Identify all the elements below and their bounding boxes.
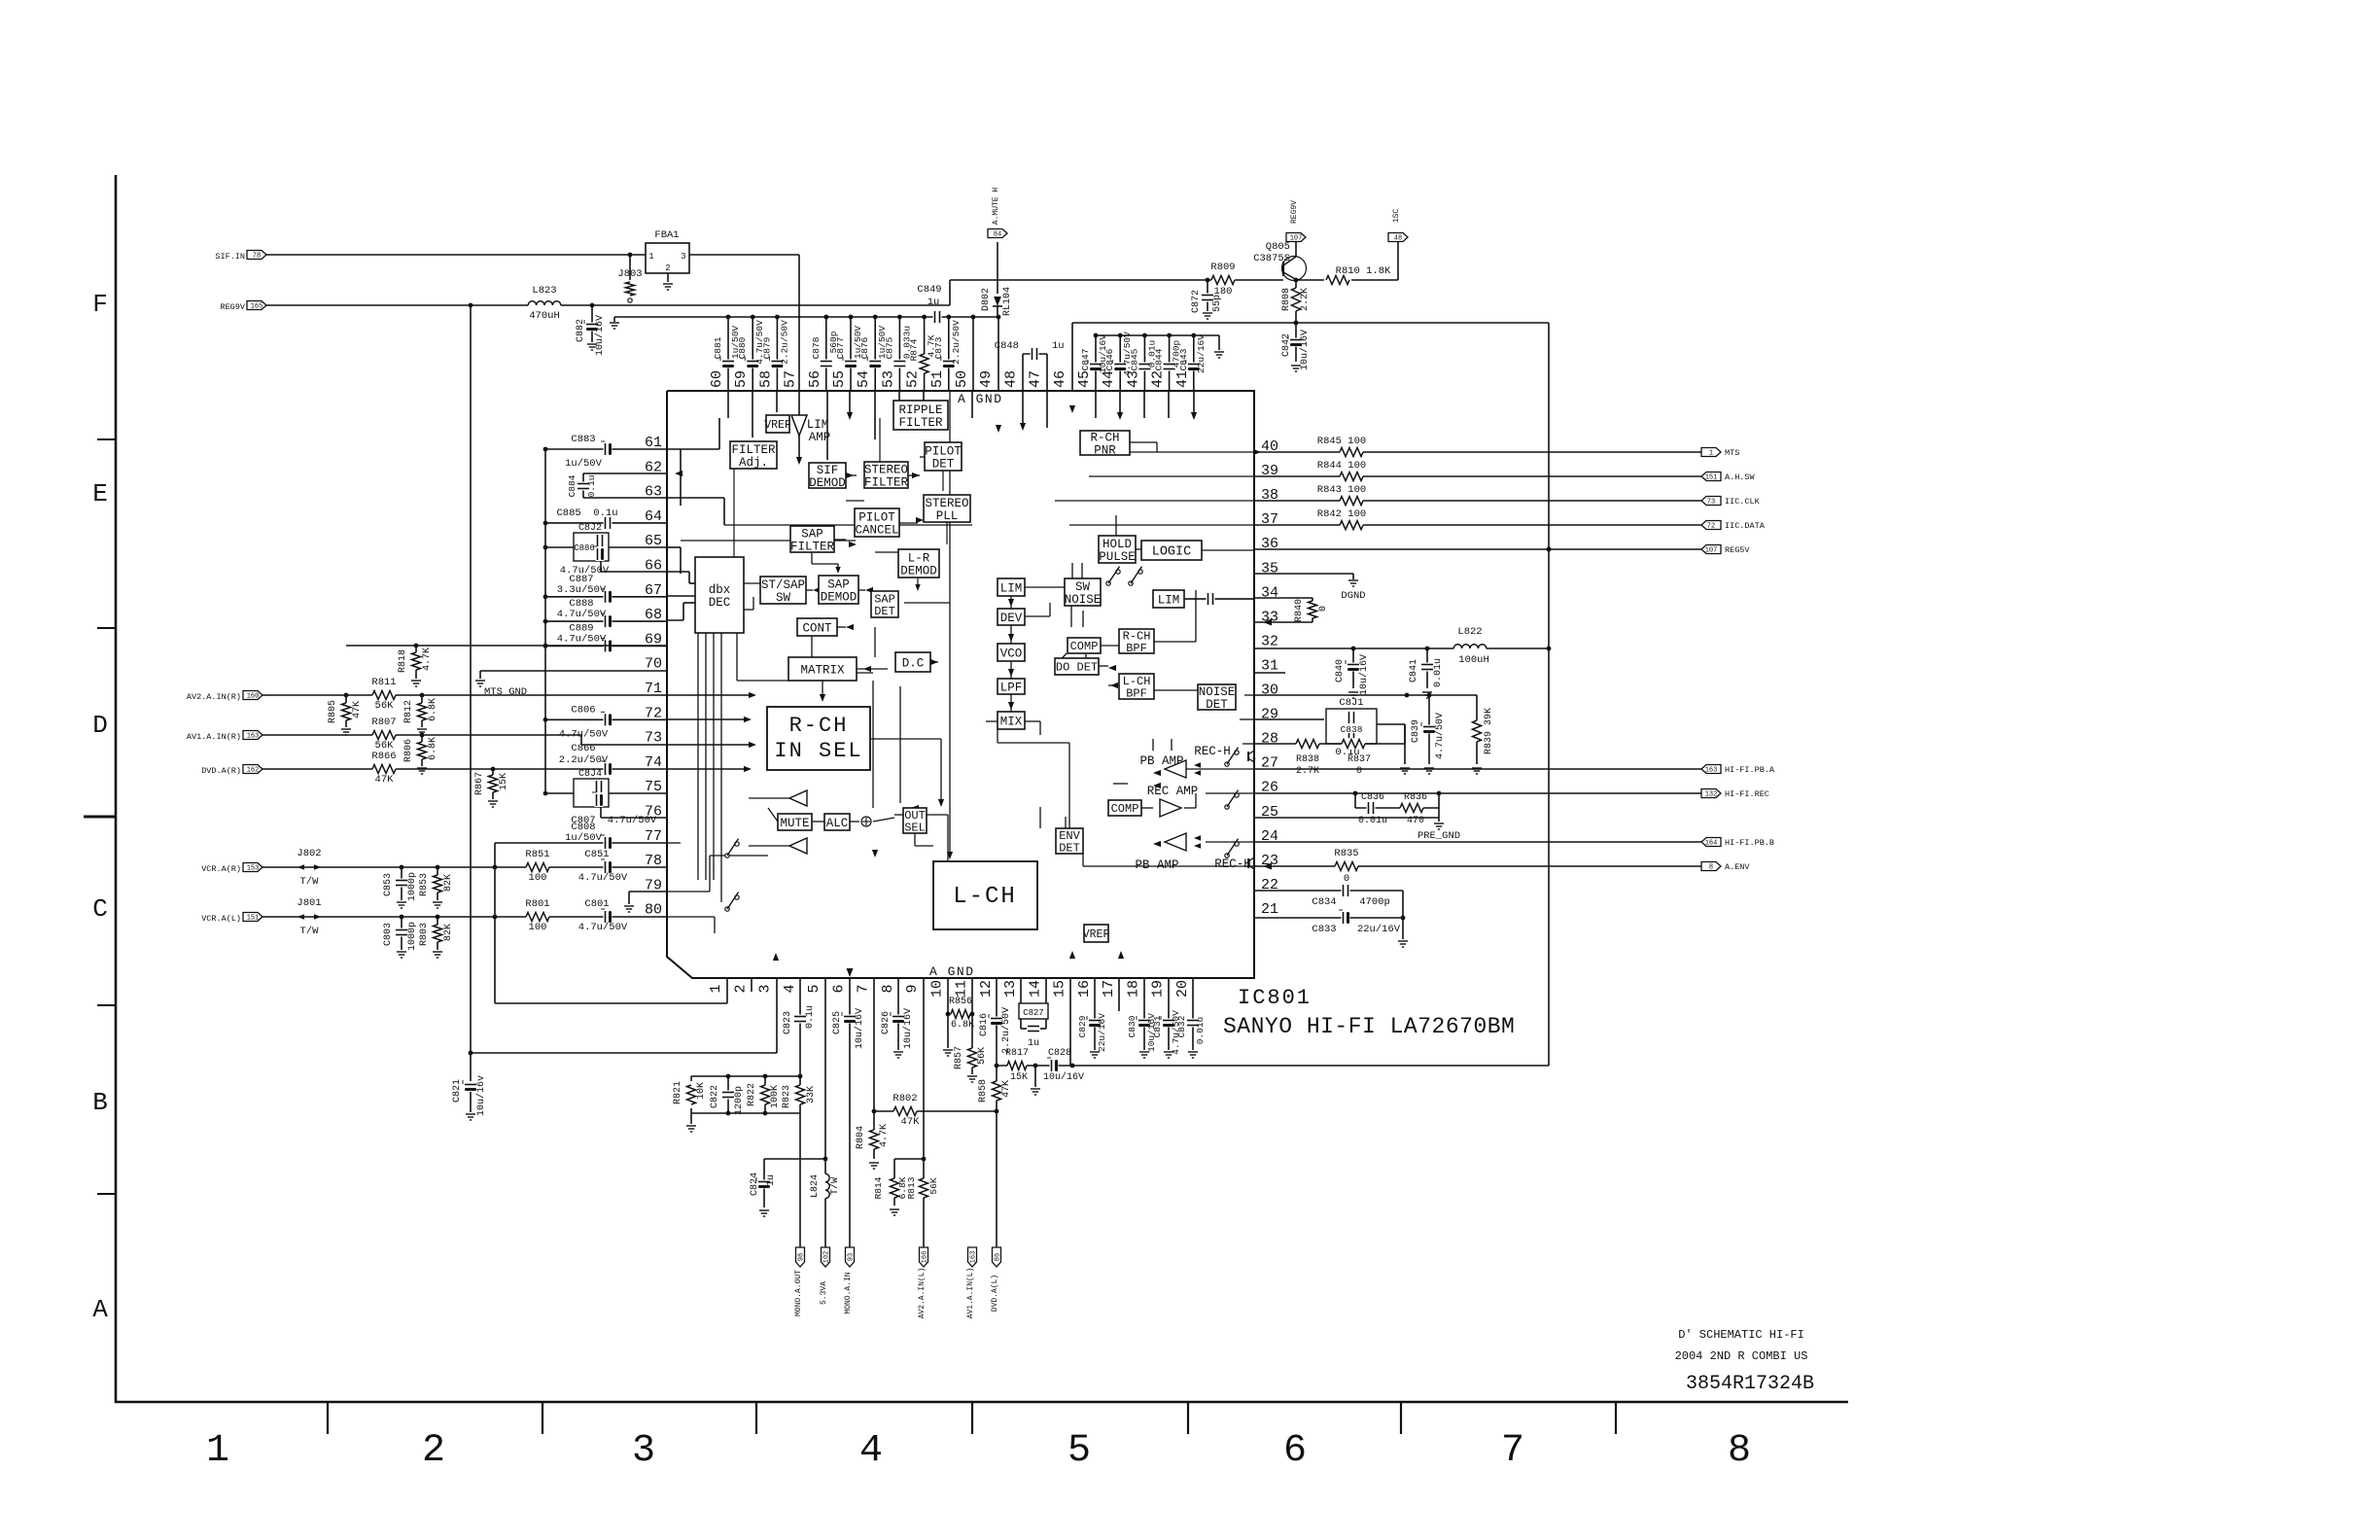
capacitor C826 bbox=[881, 978, 914, 1058]
pin 33 bbox=[1261, 609, 1278, 625]
capacitor C836 loop bbox=[1353, 791, 1442, 826]
wire bbox=[1010, 625, 1012, 644]
svg-text:42: 42 bbox=[1150, 370, 1167, 388]
svg-text:MONO.A.IN: MONO.A.IN bbox=[844, 1272, 853, 1313]
svg-text:SANYO HI-FI LA72670BM: SANYO HI-FI LA72670BM bbox=[1223, 1014, 1515, 1039]
svg-text:BPF: BPF bbox=[1126, 686, 1147, 700]
wire arrow bbox=[1110, 682, 1118, 688]
connector A.ENV bbox=[1701, 862, 1750, 873]
wire pin feed bbox=[752, 391, 753, 437]
pin 39 bbox=[1261, 463, 1278, 479]
wire bbox=[1101, 645, 1119, 647]
wire AGND bus A bbox=[614, 315, 1000, 320]
wire bbox=[930, 661, 938, 663]
wire pin 27 to HI-FI.PB.A bbox=[1254, 768, 1701, 770]
wire pin 36 to REG5V bbox=[1254, 548, 1701, 550]
svg-text:E: E bbox=[92, 479, 108, 508]
svg-text:1200p: 1200p bbox=[734, 1086, 745, 1115]
svg-text:C801: C801 bbox=[584, 898, 609, 910]
connector HI-FI.PB.B bbox=[1701, 838, 1774, 849]
pin 14 bbox=[1027, 980, 1043, 997]
wire SIF feed down to pin 57 bbox=[798, 255, 800, 415]
ground pin28 net bbox=[1400, 724, 1410, 774]
pin 36 bbox=[1261, 536, 1278, 552]
wire pin11 drop bbox=[970, 978, 975, 1074]
pin 17 bbox=[1101, 980, 1117, 997]
inductor L822 bbox=[1453, 626, 1489, 666]
wire VCR R row to pin78 bbox=[262, 865, 667, 870]
svg-text:A.MUTE H: A.MUTE H bbox=[992, 188, 1000, 226]
svg-text:32: 32 bbox=[1261, 633, 1278, 649]
pin 43 bbox=[1125, 370, 1141, 388]
wire arrow bbox=[847, 412, 853, 420]
svg-text:FBA1: FBA1 bbox=[654, 229, 679, 241]
svg-text:AV1.A.IN(R): AV1.A.IN(R) bbox=[187, 732, 241, 742]
svg-text:C853: C853 bbox=[383, 873, 394, 896]
connector HI-FI.PB.A bbox=[1701, 765, 1775, 776]
svg-text:4.7u/50V: 4.7u/50V bbox=[557, 633, 607, 645]
transistor REC-H lower bbox=[1214, 857, 1255, 871]
svg-text:R807: R807 bbox=[371, 717, 396, 728]
wire LIM AMP out bbox=[796, 436, 802, 465]
switch sw4 bbox=[1225, 790, 1239, 810]
block NOISE DET bbox=[1198, 684, 1236, 712]
capacitor C828 bbox=[1043, 1048, 1084, 1083]
wire bottom rail to right bus bbox=[997, 1064, 1549, 1068]
svg-text:REC AMP: REC AMP bbox=[1147, 785, 1199, 798]
svg-text:3: 3 bbox=[757, 984, 774, 993]
svg-text:100: 100 bbox=[529, 922, 547, 933]
pin 15 bbox=[1052, 980, 1068, 997]
wire bbox=[1202, 549, 1254, 551]
pin 4 bbox=[782, 984, 798, 993]
block SAP FILTER bbox=[790, 526, 835, 553]
pin 29 bbox=[1261, 707, 1278, 723]
pin 55 bbox=[831, 370, 848, 388]
connector A.MUTE H bbox=[988, 188, 1007, 239]
ground cap-stack bus bbox=[1214, 352, 1224, 358]
svg-text:R813: R813 bbox=[906, 1176, 917, 1199]
wire bbox=[997, 742, 1069, 744]
svg-text:C881: C881 bbox=[713, 336, 723, 359]
svg-text:48: 48 bbox=[1002, 370, 1019, 388]
pin 45 bbox=[1076, 370, 1093, 388]
pin 56 bbox=[807, 370, 823, 388]
pin 27 bbox=[1261, 755, 1278, 772]
op-amp U1 IC801 outline bbox=[667, 391, 1254, 978]
resistor R858 bbox=[978, 1079, 1012, 1102]
row label E bbox=[92, 479, 108, 508]
svg-text:0.01u: 0.01u bbox=[1433, 658, 1444, 687]
svg-text:30: 30 bbox=[1261, 682, 1278, 699]
svg-text:D' SCHEMATIC HI-FI: D' SCHEMATIC HI-FI bbox=[1678, 1328, 1804, 1342]
svg-text:R874: R874 bbox=[909, 338, 920, 361]
wire bbox=[1071, 563, 1073, 578]
block MATRIX bbox=[788, 657, 857, 681]
pin 18 bbox=[1125, 980, 1141, 997]
svg-text:DVD.A(L): DVD.A(L) bbox=[991, 1275, 999, 1312]
wire Q805 emitter to R810 bbox=[1297, 279, 1324, 281]
op-amp mute amp lower bbox=[749, 838, 807, 854]
svg-text:51: 51 bbox=[929, 370, 946, 388]
capacitor C823 bbox=[783, 978, 816, 1076]
svg-text:C3875S: C3875S bbox=[1253, 253, 1290, 264]
svg-text:20: 20 bbox=[1174, 980, 1191, 997]
svg-text:C866: C866 bbox=[571, 743, 595, 754]
svg-text:4.7u/50V: 4.7u/50V bbox=[578, 922, 628, 933]
connector REG5V bbox=[1701, 545, 1750, 556]
resistor R836 bbox=[1400, 792, 1427, 826]
svg-text:12: 12 bbox=[978, 980, 995, 997]
wire OUT SEL to L-CH bbox=[915, 833, 933, 846]
svg-text:MUTE: MUTE bbox=[780, 817, 809, 830]
svg-text:DEMOD: DEMOD bbox=[809, 476, 846, 490]
wire bbox=[873, 818, 894, 822]
svg-text:132: 132 bbox=[1705, 791, 1718, 799]
svg-text:AV2.A.IN(L): AV2.A.IN(L) bbox=[918, 1268, 927, 1319]
svg-text:56K: 56K bbox=[375, 700, 395, 712]
pin 47 bbox=[1028, 370, 1044, 388]
wire bbox=[875, 551, 898, 553]
column label 5 bbox=[1067, 1429, 1091, 1473]
wire pin feed bbox=[1143, 391, 1145, 418]
svg-text:C: C bbox=[92, 894, 108, 924]
wire pin 39 to A.H.SW bbox=[1254, 475, 1701, 477]
resistor R857 bbox=[954, 1046, 988, 1082]
pin 19 bbox=[1150, 980, 1167, 997]
wire bbox=[741, 609, 753, 611]
svg-text:10u/16V: 10u/16V bbox=[594, 315, 606, 356]
wire bbox=[667, 916, 715, 918]
svg-text:10K: 10K bbox=[696, 1082, 707, 1100]
svg-text:C823: C823 bbox=[783, 1011, 793, 1034]
svg-text:C841: C841 bbox=[1409, 659, 1419, 682]
resistor R811 bbox=[371, 677, 396, 712]
pin 16 bbox=[1076, 980, 1093, 997]
svg-text:60: 60 bbox=[709, 370, 725, 388]
svg-text:55: 55 bbox=[831, 370, 848, 388]
wire bbox=[1154, 689, 1198, 691]
svg-text:C877: C877 bbox=[835, 337, 846, 360]
wire PB AMP out bbox=[1165, 768, 1198, 770]
wire arrow bbox=[1118, 951, 1124, 959]
svg-text:C833: C833 bbox=[1312, 924, 1336, 935]
svg-text:R812: R812 bbox=[403, 700, 414, 723]
wire bbox=[920, 456, 925, 458]
pin 65 bbox=[645, 533, 662, 549]
svg-text:107: 107 bbox=[1705, 547, 1718, 555]
wire arrow bbox=[916, 812, 924, 818]
block HOLD PULSE bbox=[1099, 536, 1136, 564]
svg-text:C842: C842 bbox=[1281, 333, 1292, 357]
inductor L823 bbox=[528, 285, 561, 322]
wire arrow bbox=[1008, 599, 1014, 607]
resistor R853 bbox=[419, 867, 454, 908]
svg-text:16: 16 bbox=[1076, 980, 1093, 997]
svg-text:2.2u/50V: 2.2u/50V bbox=[559, 754, 609, 766]
svg-text:A GND: A GND bbox=[929, 964, 975, 979]
capacitor C873 bbox=[933, 315, 962, 391]
svg-text:R822: R822 bbox=[747, 1083, 757, 1106]
svg-text:LIM: LIM bbox=[1158, 593, 1180, 607]
svg-text:C8J4: C8J4 bbox=[578, 769, 602, 780]
resistor R874 bbox=[909, 315, 937, 391]
wire arrow bbox=[1110, 805, 1118, 811]
svg-text:FILTER: FILTER bbox=[790, 540, 835, 553]
wire bbox=[1069, 524, 1254, 526]
pin 34 bbox=[1261, 584, 1278, 601]
pin 69 bbox=[645, 631, 662, 647]
svg-text:R808: R808 bbox=[1281, 288, 1292, 311]
svg-text:PULSE: PULSE bbox=[1099, 550, 1136, 564]
resistor R804 bbox=[856, 1111, 890, 1169]
connector MTS bbox=[1701, 448, 1739, 459]
svg-text:R810 1.8K: R810 1.8K bbox=[1336, 265, 1391, 277]
wire bbox=[1211, 598, 1254, 600]
svg-text:0: 0 bbox=[1318, 606, 1329, 612]
svg-text:R844 100: R844 100 bbox=[1317, 460, 1366, 472]
title D' SCHEMATIC HI-FI bbox=[1678, 1328, 1804, 1342]
capacitor C885 bbox=[543, 507, 667, 530]
svg-text:J802: J802 bbox=[297, 848, 321, 859]
wire right vertical bus bbox=[1547, 323, 1552, 1066]
svg-text:C846: C846 bbox=[1104, 348, 1115, 370]
svg-text:VREF: VREF bbox=[1083, 928, 1110, 941]
svg-text:FILTER: FILTER bbox=[864, 475, 909, 489]
svg-text:82K: 82K bbox=[443, 874, 454, 892]
svg-text:DEC: DEC bbox=[709, 596, 731, 610]
svg-text:C847: C847 bbox=[1080, 349, 1091, 371]
wire bbox=[1242, 743, 1254, 745]
svg-text:93: 93 bbox=[848, 1253, 856, 1261]
wire bbox=[899, 522, 918, 524]
pin 58 bbox=[757, 370, 774, 388]
svg-text:R853: R853 bbox=[419, 873, 430, 896]
row tick D/C bbox=[84, 816, 116, 819]
row label C bbox=[92, 894, 108, 924]
svg-text:REC-H: REC-H bbox=[1194, 745, 1231, 758]
svg-text:2.7K: 2.7K bbox=[1296, 766, 1319, 777]
wire bbox=[857, 668, 888, 670]
wire arrow bbox=[1008, 669, 1014, 677]
jumper J802 bbox=[297, 848, 321, 888]
svg-text:0: 0 bbox=[1344, 873, 1349, 885]
wire bbox=[1025, 720, 1040, 722]
resistor R813 bbox=[906, 1176, 939, 1199]
column label 3 bbox=[632, 1429, 655, 1473]
pin 22 bbox=[1261, 877, 1278, 893]
wire bbox=[894, 814, 903, 816]
wire bbox=[899, 563, 909, 565]
connector AV1.A.IN(R) bbox=[187, 731, 262, 743]
wire pin feed bbox=[1168, 391, 1170, 418]
wire arrow bbox=[898, 561, 906, 567]
capacitor C876 bbox=[859, 315, 888, 391]
svg-text:72: 72 bbox=[1707, 523, 1715, 531]
svg-text:10u/16V: 10u/16V bbox=[1299, 330, 1311, 370]
wire arrow bbox=[1153, 841, 1161, 847]
svg-text:SEL: SEL bbox=[904, 821, 926, 834]
svg-text:HI-FI.REC: HI-FI.REC bbox=[1725, 789, 1769, 799]
svg-text:L822: L822 bbox=[1457, 626, 1482, 638]
wire arrow bbox=[916, 517, 924, 523]
block VREF bottom bbox=[1083, 925, 1110, 942]
svg-text:COMP: COMP bbox=[1111, 802, 1139, 816]
op-amp mute amp upper bbox=[749, 790, 807, 806]
connector IIC.DATA bbox=[1701, 521, 1766, 532]
wire bbox=[709, 856, 711, 892]
wire bbox=[1115, 515, 1117, 536]
svg-text:4.7u/50V: 4.7u/50V bbox=[1434, 713, 1446, 759]
wire top-right bus bbox=[1072, 321, 1549, 326]
wire R840 to pin33 bbox=[1254, 619, 1312, 626]
op-amp LIM AMP triangle bbox=[791, 415, 830, 444]
capacitor C833 bbox=[1254, 910, 1403, 935]
svg-text:R858: R858 bbox=[978, 1079, 989, 1102]
svg-text:C829: C829 bbox=[1077, 1015, 1088, 1037]
svg-text:A.ENV: A.ENV bbox=[1725, 862, 1750, 872]
wire pin79 stub bbox=[624, 892, 667, 912]
svg-text:C8J2: C8J2 bbox=[578, 523, 602, 534]
pin 32 bbox=[1261, 633, 1278, 649]
svg-text:3: 3 bbox=[681, 252, 685, 262]
capacitor C831 bbox=[1152, 978, 1181, 1058]
resistor R817 bbox=[1005, 1048, 1029, 1083]
wire pin feed bbox=[727, 391, 729, 418]
pin 41 bbox=[1174, 370, 1191, 388]
resistor R845 bbox=[1317, 436, 1366, 458]
wire pin46 riser bbox=[1071, 323, 1073, 391]
wire pin17 stub bbox=[1118, 978, 1120, 1011]
wire pin feed bbox=[1022, 391, 1024, 428]
resistor R803 bbox=[419, 917, 454, 958]
wire bbox=[1070, 606, 1072, 627]
svg-text:22u/16V: 22u/16V bbox=[1097, 1013, 1107, 1052]
capacitor C872 bbox=[1191, 280, 1223, 319]
svg-text:C832: C832 bbox=[1176, 1015, 1187, 1037]
svg-text:7: 7 bbox=[856, 984, 872, 993]
wire bbox=[908, 474, 920, 476]
wire pin15 drop bbox=[1069, 978, 1071, 1066]
wire pin66 stub bbox=[601, 571, 667, 573]
resistor R844 bbox=[1317, 460, 1366, 482]
svg-text:10: 10 bbox=[928, 980, 945, 997]
svg-text:C840: C840 bbox=[1335, 659, 1346, 682]
ground PRE_GND bbox=[1417, 823, 1460, 842]
wire bbox=[1025, 586, 1065, 588]
svg-text:B: B bbox=[92, 1088, 108, 1117]
wire bbox=[899, 686, 901, 803]
resistor R867 bbox=[474, 769, 509, 807]
wire bbox=[1099, 665, 1108, 667]
svg-text:47K: 47K bbox=[375, 774, 395, 786]
capacitor C842 bbox=[1281, 323, 1311, 371]
switch sw7 bbox=[725, 892, 739, 912]
wire pin62 stub bbox=[583, 471, 682, 476]
wire cap-stack top bus bbox=[1096, 335, 1219, 350]
capacitor C827 bbox=[1019, 978, 1048, 1049]
svg-text:R817: R817 bbox=[1005, 1048, 1029, 1059]
svg-text:9: 9 bbox=[904, 984, 921, 993]
pin 23 bbox=[1261, 853, 1278, 869]
svg-text:C834: C834 bbox=[1312, 896, 1336, 908]
svg-text:C849: C849 bbox=[917, 284, 941, 296]
resistor R823 bbox=[782, 1076, 817, 1247]
capacitor C803 bbox=[383, 917, 418, 958]
pin 50 bbox=[954, 370, 970, 388]
wire pin63 stub bbox=[583, 497, 667, 499]
column tick bbox=[971, 1402, 973, 1434]
svg-text:73: 73 bbox=[645, 730, 662, 747]
svg-text:6: 6 bbox=[1283, 1429, 1307, 1473]
svg-text:DEMOD: DEMOD bbox=[821, 590, 857, 604]
wire bbox=[811, 636, 813, 657]
capacitor C849 bbox=[917, 284, 941, 324]
summing node bbox=[861, 817, 871, 826]
switch sw3 bbox=[1225, 748, 1239, 767]
svg-text:A: A bbox=[92, 1295, 108, 1324]
svg-text:SIF.IN: SIF.IN bbox=[215, 252, 245, 262]
svg-text:C806: C806 bbox=[571, 704, 595, 716]
wire bbox=[1113, 783, 1128, 785]
block VREF top bbox=[764, 415, 791, 433]
svg-text:Adj.: Adj. bbox=[739, 456, 768, 470]
svg-text:4.7u/50V: 4.7u/50V bbox=[578, 872, 628, 884]
column label 6 bbox=[1283, 1429, 1307, 1473]
wire bbox=[1184, 807, 1196, 809]
svg-text:R-CH: R-CH bbox=[789, 714, 849, 738]
column tick bbox=[1400, 1402, 1402, 1434]
wire pin7 drop bbox=[872, 978, 877, 1113]
resistor R809 bbox=[1210, 262, 1235, 297]
capacitor C888 bbox=[543, 598, 667, 628]
pin 1 bbox=[708, 984, 724, 993]
svg-text:70: 70 bbox=[645, 656, 662, 673]
wire bbox=[741, 582, 760, 584]
wire R810 to connector bbox=[1351, 242, 1398, 280]
svg-text:C822: C822 bbox=[710, 1085, 720, 1108]
wire pin feed bbox=[971, 391, 973, 418]
wire bbox=[846, 500, 864, 502]
svg-text:R843 100: R843 100 bbox=[1317, 484, 1366, 496]
wire bbox=[850, 821, 859, 822]
wire L-R DEMOD to SAP DET bbox=[915, 577, 920, 591]
column tick bbox=[327, 1402, 329, 1434]
svg-text:1: 1 bbox=[648, 252, 653, 262]
svg-text:R823: R823 bbox=[782, 1085, 792, 1108]
svg-text:15K: 15K bbox=[499, 773, 509, 790]
wire arrow bbox=[996, 425, 1001, 433]
svg-text:R805: R805 bbox=[328, 700, 338, 723]
wire R-CH IN SEL out bbox=[870, 739, 944, 807]
svg-text:82K: 82K bbox=[443, 924, 454, 941]
capacitor C881 bbox=[713, 315, 741, 391]
resistor R838 bbox=[1296, 738, 1319, 777]
svg-text:DEMOD: DEMOD bbox=[900, 564, 937, 577]
resistor R837 bbox=[1342, 738, 1371, 777]
svg-text:4: 4 bbox=[782, 984, 798, 993]
wire pin1 route bbox=[493, 843, 727, 1003]
svg-text:VCR.A(L): VCR.A(L) bbox=[201, 914, 241, 924]
svg-text:DET: DET bbox=[874, 605, 895, 618]
wire bbox=[1130, 441, 1157, 443]
svg-text:15K: 15K bbox=[1010, 1072, 1028, 1083]
svg-text:MATRIX: MATRIX bbox=[800, 663, 845, 677]
wire bbox=[1118, 451, 1254, 453]
wire arrow bbox=[1020, 423, 1026, 431]
wire bbox=[714, 917, 716, 933]
wire bbox=[1152, 739, 1154, 751]
